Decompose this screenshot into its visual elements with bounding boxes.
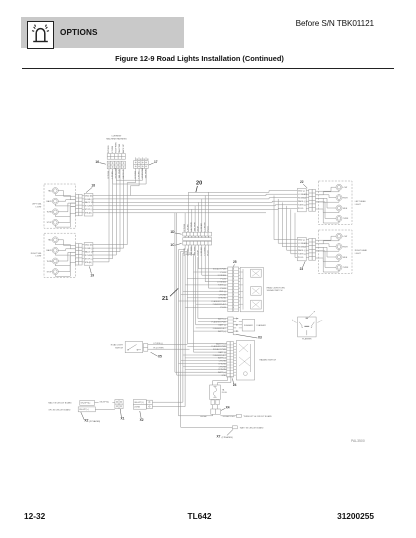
svg-text:GND (-): GND (-) (298, 239, 305, 241)
svg-text:FLASHER: FLASHER (257, 324, 267, 327)
svg-text:SIG/ACT PWR: SIG/ACT PWR (213, 348, 227, 351)
svg-text:FLASHER: FLASHER (302, 337, 312, 340)
svg-text:STA (B): STA (B) (85, 261, 92, 264)
svg-text:HAZARD SWITCH: HAZARD SWITCH (259, 359, 276, 362)
svg-text:SWITCH: SWITCH (115, 348, 123, 350)
svg-text:LO BEAM: LO BEAM (298, 193, 307, 196)
svg-text:RIGHT TAIL: RIGHT TAIL (31, 252, 43, 255)
svg-text:R/TURN: R/TURN (85, 206, 93, 208)
svg-text:HI BEAM: HI BEAM (298, 197, 307, 200)
svg-text:TAIL PWR: TAIL PWR (144, 169, 147, 179)
svg-text:P: P (314, 311, 316, 313)
svg-text:DOME (-): DOME (-) (85, 248, 94, 250)
svg-text:21: 21 (162, 296, 168, 302)
svg-text:GND (B): GND (B) (85, 195, 93, 197)
svg-text:GN-GPT(L): GN-GPT(L) (134, 402, 144, 404)
svg-text:1D: 1D (170, 230, 175, 234)
svg-text:LIGHT: LIGHT (355, 253, 362, 255)
svg-text:FLASHER ALT: FLASHER ALT (213, 327, 227, 330)
svg-text:TURN: TURN (46, 261, 52, 263)
svg-text:HIGH: HIGH (343, 197, 349, 199)
svg-text:HIGH: HIGH (343, 246, 349, 248)
svg-text:BA/BTT (+): BA/BTT (+) (216, 342, 226, 345)
svg-text:BATT (-): BATT (-) (219, 324, 227, 327)
svg-text:PAL3500: PAL3500 (351, 439, 365, 443)
svg-text:TURN: TURN (46, 212, 52, 214)
svg-text:TURN: TURN (343, 267, 349, 269)
svg-text:L/TURN (+): L/TURN (+) (153, 343, 163, 345)
svg-text:BACK UP: BACK UP (122, 169, 125, 178)
svg-text:BATT (+): BATT (+) (218, 317, 226, 320)
svg-text:BATT (+): BATT (+) (218, 357, 226, 360)
svg-text:TURN (-): TURN (-) (298, 254, 306, 256)
svg-text:16: 16 (95, 160, 99, 164)
svg-text:LOW: LOW (343, 236, 348, 238)
svg-text:FLASHER ALT: FLASHER ALT (213, 303, 227, 306)
svg-text:BACK: BACK (47, 249, 53, 252)
svg-text:TAIL PWR: TAIL PWR (118, 143, 121, 153)
svg-text:X3: X3 (258, 336, 262, 340)
svg-text:SIGNAL SWITCH: SIGNAL SWITCH (267, 289, 283, 292)
svg-text:HAZ PWR: HAZ PWR (190, 246, 193, 256)
svg-text:HI BEAM: HI BEAM (218, 274, 227, 277)
svg-text:STOP: STOP (47, 271, 53, 273)
svg-text:X2: X2 (84, 419, 88, 423)
svg-text:STOP (+): STOP (+) (85, 209, 94, 211)
svg-text:STOP (+): STOP (+) (85, 258, 94, 260)
svg-text:HI BEAM: HI BEAM (200, 247, 203, 256)
svg-text:GN-GPT(+): GN-GPT(+) (79, 409, 89, 411)
svg-text:BATT (+): BATT (+) (218, 371, 226, 374)
svg-text:BACK UP: BACK UP (85, 201, 94, 204)
svg-text:LO BEAM: LO BEAM (203, 222, 206, 231)
svg-text:PLUG: PLUG (298, 257, 304, 259)
svg-text:SIG/ACT PWR: SIG/ACT PWR (213, 268, 227, 271)
svg-text:STOP: STOP (47, 222, 53, 224)
svg-text:MACHINE HARNESS: MACHINE HARNESS (106, 137, 127, 140)
svg-text:*BAT T IN CIRCUIT BOARD: *BAT T IN CIRCUIT BOARD (240, 426, 264, 429)
svg-text:*WIRE EXT VH CIRCUIT BOARD: *WIRE EXT VH CIRCUIT BOARD (243, 415, 272, 418)
svg-text:GND (B): GND (B) (85, 245, 93, 247)
svg-text:GPC IN CIRCUIT BOARD: GPC IN CIRCUIT BOARD (48, 408, 71, 411)
svg-text:FL.BL: FL.BL (222, 392, 228, 394)
svg-text:GND (-): GND (-) (298, 190, 305, 192)
svg-text:SIDE: SIDE (343, 208, 348, 210)
svg-text:LEFT TAIL: LEFT TAIL (32, 203, 42, 206)
svg-text:CURRENT: CURRENT (111, 136, 122, 138)
svg-text:BACK: BACK (47, 200, 53, 203)
svg-text:19: 19 (90, 274, 94, 278)
svg-text:MA/LT IN CIRCUIT BOARD: MA/LT IN CIRCUIT BOARD (48, 402, 72, 405)
svg-text:X2: X2 (140, 418, 144, 422)
svg-text:20: 20 (196, 180, 202, 186)
svg-text:LO BEAM: LO BEAM (217, 281, 226, 284)
svg-text:PARK (+): PARK (+) (298, 200, 307, 203)
svg-text:R/TURN: R/TURN (85, 255, 93, 257)
svg-text:BACK UP: BACK UP (122, 144, 125, 153)
svg-text:PLUG PWR: PLUG PWR (153, 347, 164, 349)
svg-text:L/TURN: L/TURN (112, 145, 114, 153)
svg-text:(2 PLACES): (2 PLACES) (89, 420, 100, 423)
svg-text:LOW: LOW (343, 187, 348, 189)
svg-text:GN-GPT(L): GN-GPT(L) (99, 402, 109, 404)
svg-text:BACK UP: BACK UP (85, 250, 94, 253)
svg-text:LIGHT: LIGHT (36, 206, 43, 208)
svg-text:HAZ PWR: HAZ PWR (190, 222, 193, 232)
svg-text:HEAD LIGHT/TURN: HEAD LIGHT/TURN (267, 286, 286, 289)
svg-text:TURN: TURN (343, 218, 349, 220)
svg-text:LO BEAM: LO BEAM (203, 246, 206, 255)
svg-text:FLASHER PWR: FLASHER PWR (212, 300, 227, 303)
svg-text:LEFT HEAD: LEFT HEAD (355, 200, 367, 203)
svg-text:17: 17 (154, 160, 158, 164)
svg-text:1C: 1C (170, 243, 175, 247)
svg-text:PLUG: PLUG (298, 208, 304, 210)
svg-text:7A: 7A (222, 388, 225, 391)
svg-text:L/GNN: L/GNN (134, 407, 140, 409)
svg-text:18: 18 (91, 183, 95, 187)
svg-text:R/TURN: R/TURN (108, 145, 110, 153)
svg-text:23: 23 (300, 267, 304, 271)
svg-text:FLASHER ALT: FLASHER ALT (213, 354, 227, 357)
svg-text:X1: X1 (120, 416, 124, 420)
svg-text:PARK (+): PARK (+) (298, 249, 307, 252)
svg-text:LIGHT: LIGHT (36, 256, 43, 258)
svg-text:X7: X7 (216, 435, 220, 439)
svg-text:L: L (292, 320, 294, 322)
svg-text:BATT (-): BATT (-) (219, 351, 227, 354)
svg-text:GN BAT: GN BAT (200, 415, 208, 418)
svg-text:FLASHER: FLASHER (244, 324, 253, 327)
svg-text:FLASHER PWR: FLASHER PWR (212, 320, 227, 323)
svg-text:TAIL PWR: TAIL PWR (118, 169, 121, 179)
svg-text:GN BAT PWR: GN BAT PWR (223, 415, 235, 418)
svg-text:RIGHT HEAD: RIGHT HEAD (355, 249, 368, 252)
svg-text:HI BEAM: HI BEAM (298, 246, 307, 249)
svg-text:(2 PLACES): (2 PLACES) (222, 436, 233, 439)
svg-text:FLASHER PWR: FLASHER PWR (212, 345, 227, 348)
svg-text:+: + (321, 320, 323, 322)
svg-text:X5: X5 (158, 355, 162, 359)
svg-text:GN-GPT(L): GN-GPT(L) (81, 403, 91, 405)
svg-text:SIDE: SIDE (343, 257, 348, 259)
svg-text:DOME (-): DOME (-) (85, 199, 94, 201)
svg-text:HI BEAM: HI BEAM (200, 223, 203, 232)
svg-text:LIGHT: LIGHT (355, 204, 362, 206)
svg-text:TURN (-): TURN (-) (298, 205, 306, 207)
svg-text:TAIL PWR: TAIL PWR (193, 222, 196, 232)
svg-text:ROAD LIGHT: ROAD LIGHT (111, 344, 124, 347)
svg-text:X4: X4 (226, 406, 230, 410)
svg-text:22: 22 (300, 180, 304, 184)
svg-text:BATT (+): BATT (+) (218, 330, 226, 333)
svg-text:25: 25 (233, 260, 237, 264)
svg-text:LO BEAM: LO BEAM (298, 242, 307, 245)
svg-text:STA (B): STA (B) (85, 212, 92, 215)
svg-text:STOP PWR: STOP PWR (116, 142, 118, 153)
